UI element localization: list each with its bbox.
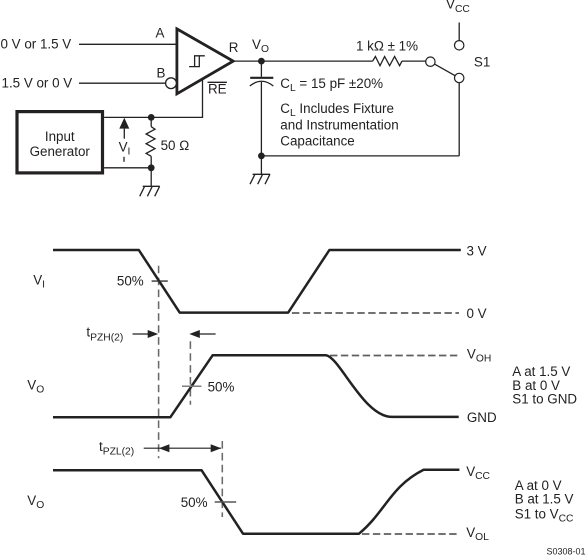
svg-text:tPZL(2): tPZL(2): [99, 439, 134, 458]
svg-text:VI: VI: [119, 139, 131, 157]
svg-text:R: R: [229, 40, 239, 55]
svg-text:Capacitance: Capacitance: [280, 134, 354, 149]
svg-text:and Instrumentation: and Instrumentation: [280, 117, 398, 132]
svg-text:RE: RE: [208, 82, 227, 97]
svg-text:tPZH(2): tPZH(2): [86, 325, 123, 344]
svg-text:50%: 50%: [117, 273, 144, 288]
svg-text:CL = 15 pF ±20%: CL = 15 pF ±20%: [280, 76, 383, 94]
svg-text:Input: Input: [45, 129, 75, 144]
svg-text:50%: 50%: [208, 379, 235, 394]
svg-text:50 Ω: 50 Ω: [161, 138, 190, 153]
svg-text:3 V: 3 V: [467, 244, 487, 259]
svg-text:VO: VO: [27, 378, 44, 396]
svg-text:S1 to VCC: S1 to VCC: [515, 507, 574, 525]
svg-text:VCC: VCC: [466, 464, 490, 482]
svg-text:Generator: Generator: [30, 144, 91, 159]
svg-text:GND: GND: [467, 410, 497, 425]
svg-text:S1 to GND: S1 to GND: [512, 392, 577, 407]
svg-text:VOL: VOL: [466, 525, 489, 543]
svg-text:B: B: [157, 66, 166, 81]
svg-text:VI: VI: [33, 273, 45, 291]
svg-text:VO: VO: [27, 493, 44, 511]
svg-text:VCC: VCC: [446, 0, 470, 15]
svg-text:0 V: 0 V: [467, 306, 487, 321]
svg-text:1.5 V or 0 V: 1.5 V or 0 V: [2, 75, 73, 90]
svg-text:VO: VO: [252, 37, 269, 55]
svg-text:1 kΩ ± 1%: 1 kΩ ± 1%: [356, 39, 418, 54]
svg-text:VOH: VOH: [467, 347, 491, 365]
svg-text:S0308-01: S0308-01: [546, 547, 585, 556]
svg-text:A: A: [156, 26, 165, 41]
svg-text:0 V or 1.5 V: 0 V or 1.5 V: [1, 37, 72, 52]
svg-text:S1: S1: [474, 55, 490, 70]
svg-text:CL Includes Fixture: CL Includes Fixture: [280, 101, 394, 119]
svg-text:B at 1.5 V: B at 1.5 V: [515, 492, 574, 507]
svg-text:50%: 50%: [181, 495, 208, 510]
